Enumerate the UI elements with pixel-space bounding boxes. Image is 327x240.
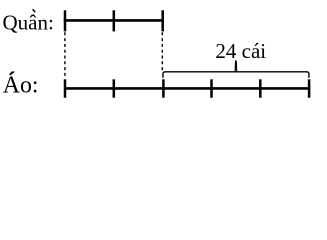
label 24 cai bbox=[215, 39, 266, 63]
bar Quan tick 1 bbox=[64, 10, 67, 31]
dashed line right bbox=[161, 32, 163, 71]
bar Ao line bbox=[64, 87, 310, 90]
dashed line left bbox=[64, 32, 66, 78]
svg-text:Quân:: Quân: bbox=[3, 10, 54, 34]
bar Quan tick 3 bbox=[161, 10, 164, 31]
svg-text:24 cái: 24 cái bbox=[215, 39, 266, 63]
svg-text:Áo:: Áo: bbox=[3, 73, 39, 99]
bar Quan line bbox=[64, 19, 164, 22]
bar Ao tick 2 bbox=[113, 79, 116, 97]
label Ao bbox=[3, 72, 39, 99]
bar Quan tick 2 bbox=[113, 10, 116, 31]
bar Ao tick 6 bbox=[308, 79, 311, 97]
label Quan bbox=[3, 9, 54, 34]
brace 24 cai bbox=[163, 60, 309, 78]
bar Ao tick 1 bbox=[64, 79, 67, 97]
bar Ao tick 4 bbox=[210, 79, 213, 97]
bar Ao tick 3 bbox=[162, 79, 165, 97]
bar Ao tick 5 bbox=[259, 79, 262, 97]
